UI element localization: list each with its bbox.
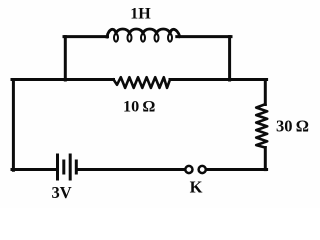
wire: main middle rail left segment	[12, 78, 114, 81]
inductor L1 1H coil	[107, 29, 180, 37]
svg-text:30 Ω: 30 Ω	[276, 116, 309, 135]
wire: right vertical bottom segment	[264, 148, 267, 170]
svg-text:1H: 1H	[130, 6, 151, 23]
wire: inductor branch right vertical	[228, 37, 231, 80]
wire: left vertical	[12, 80, 15, 171]
wire: main middle rail right segment	[170, 78, 267, 81]
wire: inductor branch top left horizontal	[64, 35, 108, 38]
resistor R1 10ohm zigzag	[114, 77, 171, 88]
svg-text:K: K	[190, 178, 203, 197]
wire: bottom rail left segment	[12, 168, 56, 171]
wire: inductor branch left vertical	[64, 37, 67, 80]
wire: bottom rail middle segment	[78, 168, 185, 171]
resistor R2 30ohm zigzag	[256, 104, 267, 147]
wire: inductor branch top right horizontal	[177, 35, 231, 38]
switch K contact circle left	[185, 166, 192, 173]
svg-text:10 Ω: 10 Ω	[123, 97, 155, 115]
svg-text:3V: 3V	[52, 183, 72, 202]
wire: bottom rail right segment	[207, 168, 267, 171]
wire: right vertical top segment	[264, 80, 267, 105]
switch K contact circle right	[199, 166, 206, 173]
battery B1 3V plates	[58, 154, 77, 181]
